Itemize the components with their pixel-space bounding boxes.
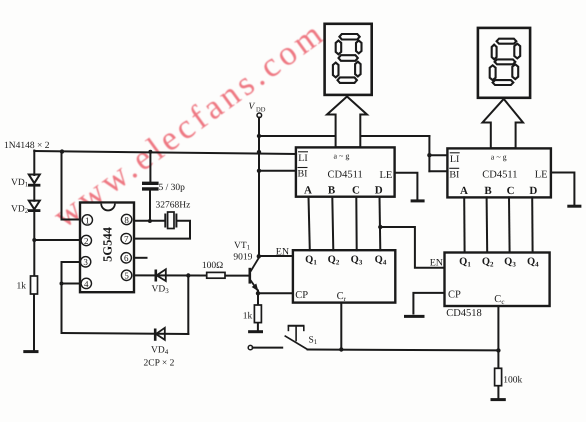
IC U5 counter 2 CD4518 xyxy=(445,253,550,307)
junction collector/EN1 xyxy=(257,254,261,258)
svg-text:a ~ g: a ~ g xyxy=(491,153,507,162)
wire 1k left to ground xyxy=(33,294,35,351)
svg-text:CD4511: CD4511 xyxy=(482,169,517,180)
wire 100k stem xyxy=(497,350,499,368)
arrow to DS2 xyxy=(483,99,524,148)
svg-text:BI: BI xyxy=(298,169,308,180)
wire D2 xyxy=(531,197,533,252)
svg-text:4: 4 xyxy=(84,279,89,289)
wire VD4 up to VD3 node xyxy=(187,276,189,335)
wire VDD vertical xyxy=(258,118,260,257)
wire D1 xyxy=(379,197,382,251)
junction capacitor/pin8 xyxy=(148,219,152,223)
svg-text:LE: LE xyxy=(380,170,393,181)
svg-text:VD1: VD1 xyxy=(11,178,29,189)
wire pin4 xyxy=(62,283,81,285)
svg-text:DD: DD xyxy=(256,107,266,114)
resistor 1k left xyxy=(31,276,38,294)
wire B1 xyxy=(332,197,333,251)
wire LE1 to ground xyxy=(395,173,418,200)
svg-text:VD2: VD2 xyxy=(11,205,29,216)
resistor 100k xyxy=(495,368,502,385)
wire pin8 to crystal xyxy=(134,220,165,222)
svg-text:B: B xyxy=(328,185,336,197)
svg-text:6: 6 xyxy=(124,253,129,263)
display DS1 xyxy=(325,24,372,95)
svg-text:LE: LE xyxy=(535,170,548,181)
wire BI2 xyxy=(429,170,447,172)
wire Cc2 down xyxy=(497,306,499,350)
wire cap branch xyxy=(149,152,151,182)
svg-text:A: A xyxy=(460,185,468,197)
svg-text:5: 5 xyxy=(124,271,129,281)
wire pin3 down xyxy=(62,262,81,333)
svg-text:EN: EN xyxy=(430,258,443,269)
wire VD branch vertical xyxy=(33,151,35,176)
svg-text:1k: 1k xyxy=(243,312,253,322)
svg-text:100Ω: 100Ω xyxy=(202,261,223,271)
wire C1 xyxy=(355,197,357,251)
svg-text:8: 8 xyxy=(124,215,129,225)
svg-text:2CP × 2: 2CP × 2 xyxy=(144,359,175,369)
pin 4 xyxy=(81,278,91,288)
svg-text:LI: LI xyxy=(298,153,307,164)
wire 1k emitter to ground xyxy=(257,323,259,331)
svg-text:EN: EN xyxy=(276,247,289,258)
svg-text:9019: 9019 xyxy=(233,253,252,263)
wire bottom switch line left xyxy=(253,347,283,349)
svg-text:CP: CP xyxy=(295,290,308,301)
svg-text:CD4511: CD4511 xyxy=(328,170,363,181)
svg-text:3: 3 xyxy=(83,257,88,267)
wire left VDD rail xyxy=(34,151,296,154)
svg-text:CD4518: CD4518 xyxy=(446,308,482,319)
svg-text:5 / 30p: 5 / 30p xyxy=(159,183,186,193)
wire B2 xyxy=(486,197,489,252)
wire bottom VD4 xyxy=(62,333,189,334)
terminal Vdd xyxy=(257,113,262,118)
svg-text:32768Hz: 32768Hz xyxy=(156,201,191,211)
wire crystal right to pin7 xyxy=(134,221,190,239)
svg-text:100k: 100k xyxy=(503,376,522,386)
pin 8 xyxy=(121,214,131,224)
pin 6 xyxy=(121,253,131,263)
svg-text:VT1: VT1 xyxy=(234,241,251,252)
pin 7 xyxy=(121,233,131,243)
wire CP1 xyxy=(258,292,293,294)
svg-text:2: 2 xyxy=(84,236,89,246)
IC U3 CD4511 second xyxy=(447,148,551,197)
pin 3 xyxy=(80,257,90,267)
wire LE2 to ground xyxy=(551,173,575,205)
wire LI2 drop xyxy=(428,136,430,171)
wire rail drop to pin1 xyxy=(62,151,81,220)
svg-text:VD4: VD4 xyxy=(151,346,169,357)
junction D1/EN2 branch xyxy=(378,225,382,229)
IC U4 counter 1 xyxy=(293,250,395,303)
switch S1 xyxy=(248,326,307,350)
pin 5 xyxy=(121,270,131,280)
svg-text:BI: BI xyxy=(449,169,459,180)
pin 2 xyxy=(81,235,91,245)
wire bottom switch line right xyxy=(308,349,499,352)
svg-text:1: 1 xyxy=(85,215,90,225)
junction rail1/capacitor xyxy=(148,150,152,154)
svg-text:7: 7 xyxy=(124,234,129,244)
resistor 1k emitter xyxy=(254,305,261,323)
watermark www.elecfans.com xyxy=(46,13,332,235)
ground LE1 xyxy=(411,199,425,202)
crystal 32768Hz xyxy=(165,212,176,229)
wire EN1 xyxy=(259,255,293,257)
svg-text:5G544: 5G544 xyxy=(100,226,114,261)
IC 5G544 xyxy=(80,203,134,293)
ground emitter xyxy=(248,330,263,333)
junction Vdd/rail2 xyxy=(257,134,261,138)
svg-text:CP: CP xyxy=(448,289,461,300)
wire BI1 xyxy=(259,170,296,172)
arrow to DS1 xyxy=(327,97,367,148)
junction Vdd/rail1 xyxy=(257,150,261,154)
svg-text:D: D xyxy=(529,185,537,197)
wire A1 xyxy=(309,197,310,251)
svg-text:1k: 1k xyxy=(17,282,27,292)
svg-text:VD3: VD3 xyxy=(152,285,170,296)
ground left xyxy=(23,350,38,353)
junction rail1/pin1 drop xyxy=(60,149,64,153)
wire VDD rail2 xyxy=(259,135,429,137)
svg-text:a ~ g: a ~ g xyxy=(334,152,350,161)
wire CP2 to ground xyxy=(413,293,444,314)
svg-text:C: C xyxy=(352,185,360,197)
wire pin6 stub xyxy=(134,257,147,259)
svg-text:B: B xyxy=(484,185,492,197)
wire 100ohm to base xyxy=(225,275,250,277)
svg-text:LI: LI xyxy=(450,154,459,165)
junction VD3/VD4 node xyxy=(186,273,190,277)
wire emitter down xyxy=(257,291,259,306)
resistor 100ohm xyxy=(207,272,225,278)
junction emitter/CP1 xyxy=(256,291,260,295)
svg-text:A: A xyxy=(304,185,312,197)
wire Q4 to EN2 xyxy=(380,227,444,268)
wire pin5 through VD3 to base resistor xyxy=(134,274,207,276)
capacitor 5/30p xyxy=(142,183,159,189)
diode VD2 xyxy=(28,201,40,211)
wire LI2 xyxy=(429,154,447,156)
svg-text:D: D xyxy=(375,185,383,197)
wire pin2 xyxy=(34,239,80,241)
junction pin3/pin4 xyxy=(60,282,64,286)
IC U2 CD4511 first xyxy=(296,147,395,196)
ground LE2 xyxy=(567,205,581,208)
wire Cr1 down xyxy=(340,303,342,350)
svg-text:1N4148 × 2: 1N4148 × 2 xyxy=(4,141,50,151)
svg-text:S1: S1 xyxy=(309,336,318,347)
ground 100k xyxy=(491,398,506,401)
wire A2 xyxy=(463,197,465,252)
transistor VT1 xyxy=(250,258,259,292)
junction LI2 branch xyxy=(427,153,431,157)
junction Cc/100k node xyxy=(496,348,500,352)
svg-text:C: C xyxy=(507,185,515,197)
diode VD1 xyxy=(28,175,40,186)
diode VD3 xyxy=(156,269,166,281)
pin 1 xyxy=(82,215,92,225)
diode VD4 xyxy=(155,328,165,341)
ground CP2 xyxy=(404,315,425,318)
junction pin2/VD branch xyxy=(32,238,36,242)
junction Vdd/BI1 xyxy=(257,169,261,173)
wire C2 xyxy=(508,197,511,252)
display DS2 xyxy=(478,28,530,98)
junction Cr/bottom wire xyxy=(339,347,343,351)
